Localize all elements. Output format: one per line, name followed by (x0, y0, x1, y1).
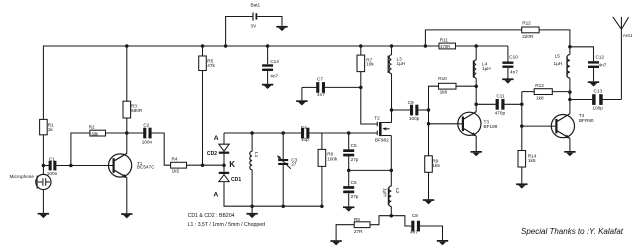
svg-text:4n7: 4n7 (270, 73, 278, 78)
svg-text:470R: 470R (440, 44, 450, 49)
svg-text:1k: 1k (48, 127, 54, 132)
svg-text:68k: 68k (92, 132, 100, 137)
svg-text:R4: R4 (172, 157, 178, 162)
svg-text:C10: C10 (509, 55, 518, 60)
svg-text:T2: T2 (374, 115, 380, 120)
svg-text:1µH: 1µH (397, 61, 406, 66)
svg-text:C11: C11 (496, 94, 505, 99)
svg-text:27: 27 (291, 162, 297, 167)
svg-text:1k8: 1k8 (440, 89, 448, 94)
svg-text:C9: C9 (408, 100, 414, 105)
svg-text:L1 : 3,5T / 1mm / 5mm / Choppe: L1 : 3,5T / 1mm / 5mm / Chopped (188, 222, 266, 228)
svg-text:A: A (213, 191, 218, 198)
svg-text:Microphone: Microphone (10, 174, 35, 179)
svg-text:C2: C2 (143, 123, 149, 128)
svg-text:R2: R2 (89, 125, 95, 130)
svg-text:CD1 & CD2 : BB204: CD1 & CD2 : BB204 (188, 213, 235, 219)
svg-text:680R: 680R (131, 108, 143, 113)
svg-text:C4: C4 (301, 125, 307, 130)
svg-text:BC547C: BC547C (137, 164, 155, 169)
svg-text:K: K (229, 160, 235, 169)
svg-text:L1: L1 (254, 152, 259, 158)
svg-text:R12: R12 (522, 21, 531, 26)
svg-text:100n: 100n (47, 171, 58, 176)
svg-text:10k: 10k (366, 61, 374, 66)
svg-text:4n7: 4n7 (410, 230, 418, 235)
svg-text:L2: L2 (395, 188, 400, 194)
svg-text:C5: C5 (351, 143, 357, 148)
svg-text:27p: 27p (351, 157, 359, 162)
svg-text:Special Thanks to :Y. Kalafat: Special Thanks to :Y. Kalafat (521, 227, 624, 236)
svg-text:Bat1: Bat1 (251, 3, 261, 8)
svg-text:1k5: 1k5 (172, 168, 180, 173)
svg-text:CD2: CD2 (207, 151, 217, 157)
svg-text:100p: 100p (409, 116, 420, 121)
svg-text:R11: R11 (440, 38, 449, 43)
svg-text:1µH: 1µH (554, 61, 563, 66)
svg-text:4n7: 4n7 (317, 92, 325, 97)
svg-text:BF982: BF982 (375, 138, 389, 143)
svg-text:470p: 470p (495, 111, 506, 116)
svg-text:C7: C7 (317, 77, 323, 82)
svg-text:100n: 100n (142, 140, 153, 145)
svg-text:BFR90: BFR90 (579, 118, 594, 123)
svg-text:R8: R8 (354, 217, 360, 222)
svg-text:1k8: 1k8 (536, 96, 544, 101)
svg-text:27p: 27p (351, 194, 359, 199)
svg-text:100k: 100k (327, 156, 338, 161)
svg-text:10p: 10p (301, 137, 309, 142)
svg-text:4n7: 4n7 (599, 63, 607, 68)
svg-text:Ant1: Ant1 (623, 33, 633, 38)
svg-text:1µH: 1µH (482, 66, 491, 71)
svg-text:L5: L5 (555, 54, 561, 59)
svg-text:BF199: BF199 (484, 124, 498, 129)
svg-text:100p: 100p (592, 105, 603, 110)
svg-text:1k5: 1k5 (528, 158, 536, 163)
svg-text:1k5: 1k5 (432, 163, 440, 168)
svg-text:A: A (214, 135, 219, 142)
svg-text:3V: 3V (251, 23, 258, 28)
svg-text:C6: C6 (351, 180, 357, 185)
svg-text:47k: 47k (207, 63, 215, 68)
svg-text:CD1: CD1 (231, 177, 241, 183)
svg-text:C13: C13 (594, 88, 603, 93)
svg-text:C1: C1 (49, 157, 55, 162)
svg-text:C14: C14 (270, 59, 279, 64)
svg-text:R10: R10 (438, 76, 447, 81)
svg-text:220R: 220R (522, 34, 534, 39)
svg-text:1µH: 1µH (382, 188, 387, 197)
svg-text:27R: 27R (354, 229, 363, 234)
svg-text:R13: R13 (535, 83, 544, 88)
svg-text:C8: C8 (412, 213, 418, 218)
svg-text:4n7: 4n7 (510, 69, 518, 74)
svg-text:C12: C12 (596, 55, 605, 60)
